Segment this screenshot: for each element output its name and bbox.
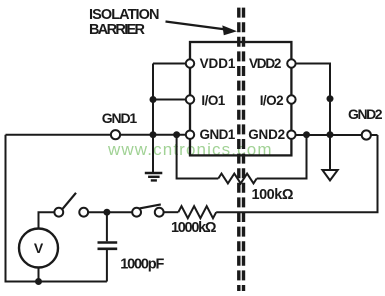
svg-text:100kΩ: 100kΩ [252,187,294,203]
svg-text:I/O1: I/O1 [201,93,225,108]
svg-text:ISOLATION: ISOLATION [89,7,160,23]
svg-text:GND1: GND1 [200,127,236,142]
svg-text:GND1: GND1 [102,110,138,126]
svg-text:V: V [34,240,44,256]
svg-text:VDD2: VDD2 [249,56,281,71]
svg-text:I/O2: I/O2 [260,93,284,108]
svg-text:1000kΩ: 1000kΩ [171,220,217,236]
svg-text:BARRIER: BARRIER [89,22,146,38]
svg-text:1000pF: 1000pF [120,256,164,272]
svg-text:VDD1: VDD1 [200,56,236,71]
svg-text:GND2: GND2 [348,106,383,122]
svg-text:GND2: GND2 [248,127,285,142]
